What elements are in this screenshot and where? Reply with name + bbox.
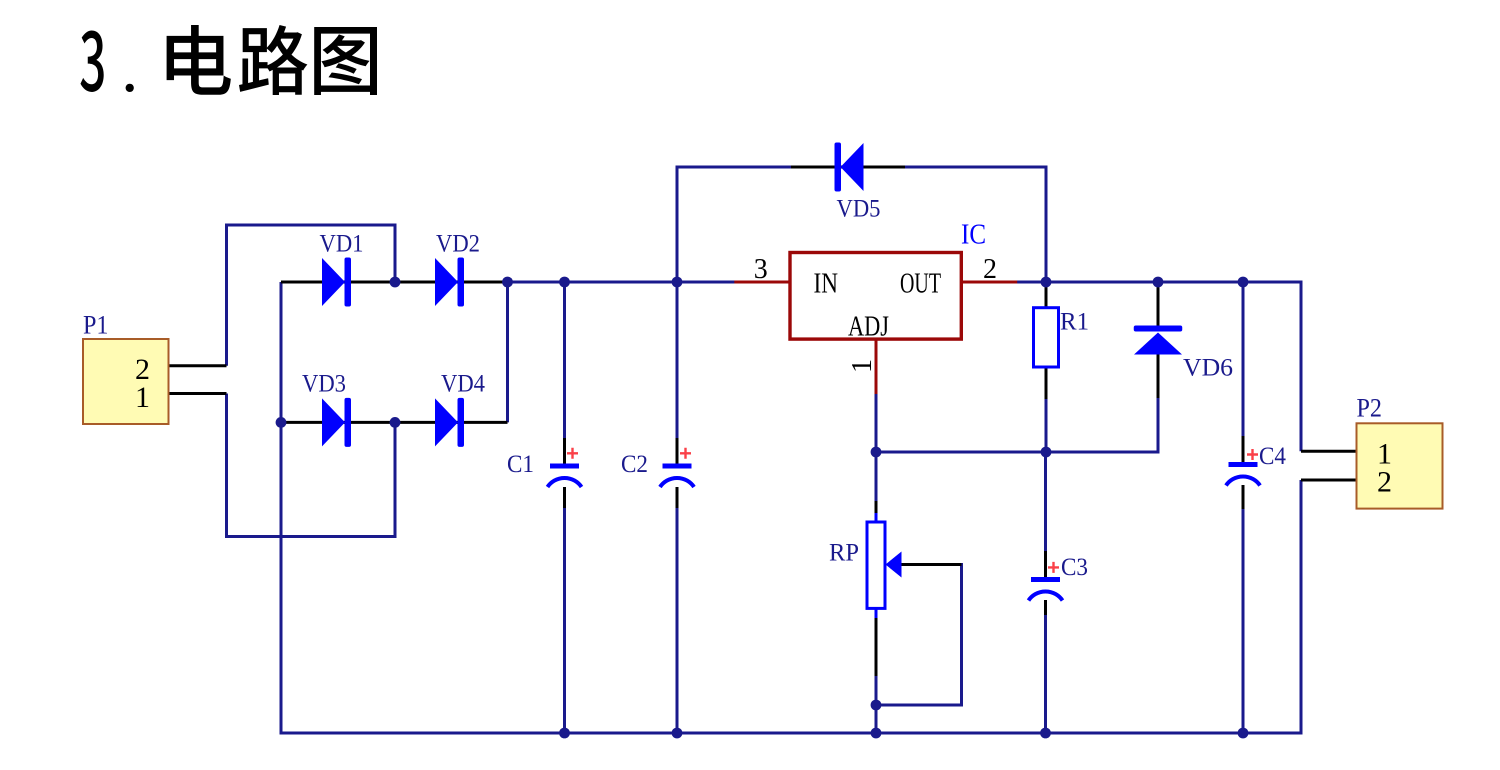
wire P2 pin1 lead [1301,450,1357,453]
wire RP wiper horizontal (black) [900,563,962,566]
node RP wiper return junction [871,700,882,711]
node rail RP junction [871,728,882,739]
node VD6 top junction [1153,277,1164,288]
wire P2 pin1 riser [1300,282,1303,451]
wire RP lower navy segment [875,675,878,705]
wire RP top lead [875,501,878,514]
wire P1 pin1 lead [168,392,227,395]
svg-text:3: 3 [754,254,768,285]
svg-text:VD5: VD5 [837,196,881,223]
wire P2 pin2 lead [1301,479,1357,482]
node bridge top mid junction [390,277,401,288]
wire C3 node horizontal to VD6 corner [1046,451,1160,454]
wire VD5 left riser [676,166,679,283]
svg-text:RP: RP [829,540,859,567]
wire VD5 black segment [791,166,905,169]
wire C4 top lead [1242,436,1245,462]
wire C1 top lead [563,438,566,464]
svg-text:VD2: VD2 [436,231,480,258]
svg-text:1: 1 [847,359,878,373]
wire C2 bottom lead [676,487,679,508]
svg-text:C2: C2 [621,451,648,478]
wire bottom loop horizontal [225,535,397,538]
svg-text:C3: C3 [1061,554,1088,581]
wire P2 pin2 drop [1300,480,1303,735]
wire RP wiper vertical [960,563,963,707]
node bridge output junction [502,277,513,288]
wire RP bottom to rail [875,705,878,733]
node C3 top junction [1041,447,1052,458]
svg-text:R1: R1 [1060,309,1089,336]
wire VD5 top horizontal left [677,166,792,169]
wire C1 bottom lead [563,487,566,508]
svg-text:VD6: VD6 [1183,355,1233,382]
svg-text:IC: IC [961,220,986,251]
wire C1 lower vertical [563,507,566,733]
diode VD1 [320,231,364,307]
svg-text:1: 1 [135,381,150,414]
wire bridge bottom row (black) [281,421,508,424]
wire R1 bottom lead [1045,367,1048,399]
wire C4 bottom lead [1242,485,1245,509]
wire C3 top lead [1044,551,1047,577]
wire output node horizontal (IC OUT to P2 corner) [1017,281,1303,284]
wire P1 pin2 lead [168,364,227,367]
wire C4 upper vertical [1242,282,1245,438]
wire bridge output right vertical [506,282,509,422]
node rail C3 junction [1040,728,1051,739]
wire RP bottom lead [875,616,878,676]
wire top loop horizontal to bridge [225,224,397,227]
capacitor C4 [1226,443,1286,486]
wire main node horizontal (bridge out to IC IN) [508,281,736,284]
svg-text:OUT: OUT [900,269,941,300]
wire P1 pin1 drop vertical [225,394,228,539]
node C2 top junction [672,277,683,288]
capacitor C3 [1029,554,1089,601]
svg-text:C4: C4 [1259,443,1286,470]
wire C3 bottom lead [1044,600,1047,615]
wire C2 top lead [676,438,679,464]
diode VD4 [435,371,485,447]
wire VD6 lower vertical [1157,397,1160,452]
svg-text:2: 2 [1377,466,1392,499]
wire RP upper navy segment [875,452,878,503]
capacitor C2 [621,448,694,487]
wire bridge AC2 drop vertical [394,225,397,282]
node rail C1 junction [559,728,570,739]
connector P2 [1357,394,1443,509]
wire R1 top lead [1045,284,1048,309]
diode VD2 [435,231,480,307]
wire bridge AC2 lower riser [394,422,397,538]
wire RP wiper return horizontal [876,704,963,707]
IC pin 3 lead (dark red) [734,281,791,284]
diode VD6 [1134,326,1233,382]
wire VD5 top horizontal right [904,166,1048,169]
wire VD6 bottom lead [1157,353,1160,398]
capacitor C1 [507,448,582,487]
node rail C4 junction [1238,728,1249,739]
node ADJ junction [871,447,882,458]
IC pin 2 lead (dark red) [961,281,1018,284]
svg-text:ADJ: ADJ [848,312,889,343]
wire bridge top row (black) [281,281,508,284]
wire bottom rail [281,732,1303,735]
node bridge bottom left junction [276,417,287,428]
svg-text:P2: P2 [1357,394,1383,423]
regulator IC box [790,253,961,340]
node bridge bottom mid junction [390,417,401,428]
IC pin 1 ADJ lead (dark red) [875,338,878,394]
wire ADJ horizontal to C3 node [876,451,1046,454]
node C4 top junction [1238,277,1249,288]
wire C1 upper vertical [563,282,566,440]
title text 3. dianlutu (circuit diagram) [80,25,377,95]
wire P1 pin2 riser vertical [225,224,228,366]
wire C4 lower vertical [1242,508,1245,733]
wire C2 upper vertical [676,282,679,440]
connector P1 [83,311,169,425]
svg-text:2: 2 [983,254,997,285]
node IC OUT junction [1041,277,1052,288]
diode VD5 [835,143,881,223]
wire C3 upper vertical [1044,452,1047,553]
svg-text:VD1: VD1 [320,231,364,258]
svg-text:VD3: VD3 [302,371,346,398]
svg-text:IN: IN [814,269,839,300]
svg-text:C1: C1 [507,451,534,478]
resistor R1 [1034,308,1090,367]
wire C2 lower vertical [676,507,679,733]
node rail C2 junction [672,728,683,739]
potentiometer RP [829,513,902,618]
wire AC1 left vertical (bridge to bottom rail) [280,282,283,735]
svg-text:P1: P1 [83,311,109,340]
node C1 top junction [559,277,570,288]
wire VD6 top lead [1157,284,1160,327]
diode VD3 [302,371,351,447]
wire VD5 right drop [1045,166,1048,283]
svg-text:VD4: VD4 [441,371,485,398]
wire C3 lower vertical [1044,614,1047,733]
wire R1 lower navy segment [1045,398,1048,452]
wire ADJ node vertical [875,394,878,452]
